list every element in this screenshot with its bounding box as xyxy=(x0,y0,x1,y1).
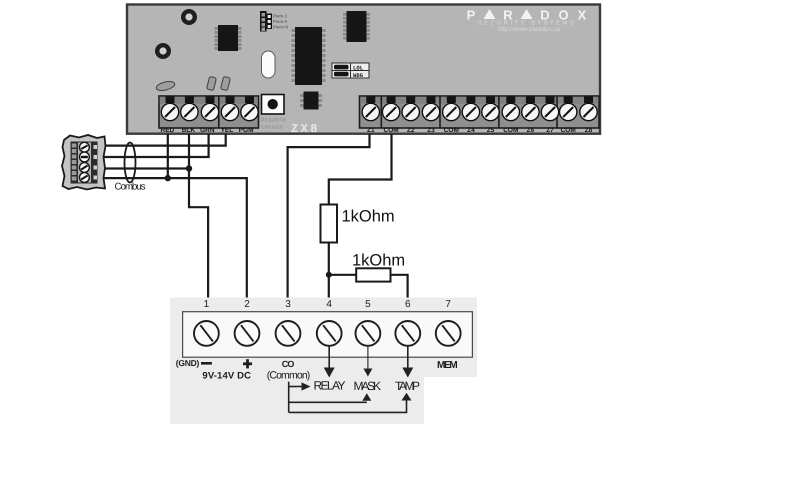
svg-text:COM: COM xyxy=(384,127,399,134)
svg-text:2: 2 xyxy=(244,299,250,310)
svg-text:Pwm+0: Pwm+0 xyxy=(273,25,289,30)
svg-text:Pwm-0: Pwm-0 xyxy=(273,19,288,24)
svg-text:COM: COM xyxy=(503,127,518,134)
svg-text:COM: COM xyxy=(444,127,459,134)
svg-text:1kOhm: 1kOhm xyxy=(352,252,405,270)
svg-text:1kOhm: 1kOhm xyxy=(342,208,395,226)
svg-text:MEM: MEM xyxy=(437,360,458,371)
svg-text:Z4: Z4 xyxy=(467,127,475,134)
svg-text:(Common): (Common) xyxy=(267,369,311,381)
svg-text:http://www.paradox.ca: http://www.paradox.ca xyxy=(498,26,560,33)
svg-text:RED: RED xyxy=(161,127,175,134)
svg-text:COM: COM xyxy=(561,127,576,134)
svg-text:4: 4 xyxy=(326,299,332,310)
svg-text:(GND): (GND) xyxy=(176,358,200,368)
svg-text:LOL: LOL xyxy=(353,65,364,72)
svg-text:Z3: Z3 xyxy=(427,127,435,134)
svg-text:PGM: PGM xyxy=(239,127,254,134)
svg-text:Z6: Z6 xyxy=(527,127,535,134)
svg-text:GRN: GRN xyxy=(200,127,215,134)
svg-text:Z1: Z1 xyxy=(367,127,375,134)
svg-text:X: X xyxy=(578,8,587,23)
svg-text:3: 3 xyxy=(285,299,291,310)
svg-text:7: 7 xyxy=(445,299,451,310)
svg-text:5: 5 xyxy=(365,299,371,310)
svg-text:Z8: Z8 xyxy=(585,127,593,134)
svg-text:Pwm-1: Pwm-1 xyxy=(273,14,288,19)
svg-text:MASK: MASK xyxy=(354,379,382,393)
svg-text:6: 6 xyxy=(405,299,411,310)
svg-text:Disable: Disable xyxy=(261,117,287,124)
svg-text:WDG: WDG xyxy=(353,72,364,79)
svg-text:ZX8: ZX8 xyxy=(291,122,320,136)
svg-text:Locate: Locate xyxy=(261,124,283,131)
svg-text:Z5: Z5 xyxy=(487,127,495,134)
svg-text:CO: CO xyxy=(282,359,295,369)
svg-text:1: 1 xyxy=(204,299,210,310)
svg-text:TAMP: TAMP xyxy=(395,379,420,393)
svg-text:RELAY: RELAY xyxy=(314,379,346,393)
svg-text:Z7: Z7 xyxy=(546,127,554,134)
svg-text:P: P xyxy=(467,8,476,23)
svg-text:Z2: Z2 xyxy=(407,127,415,134)
svg-text:9V-14V DC: 9V-14V DC xyxy=(202,370,251,381)
svg-text:YEL: YEL xyxy=(221,127,234,134)
svg-text:BLK: BLK xyxy=(182,127,196,134)
